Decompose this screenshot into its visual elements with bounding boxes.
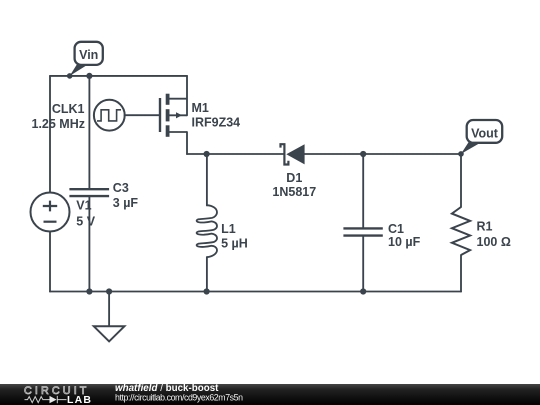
svg-text:R1: R1 bbox=[477, 220, 493, 234]
svg-text:Vout: Vout bbox=[471, 126, 499, 140]
wire switch node to diode D1 bbox=[187, 153, 284, 155]
M1 body terminal line with arrow bbox=[170, 114, 188, 116]
node bottom rail / C1 bbox=[360, 288, 366, 294]
M1 channel bar middle bbox=[166, 109, 170, 121]
capacitor C3 plates bbox=[69, 189, 109, 196]
wire C1 lower lead bbox=[362, 236, 364, 292]
inductor L1 coil bbox=[197, 205, 217, 257]
wire L1 lower lead bbox=[206, 257, 208, 292]
wire C3 branch lower bbox=[88, 197, 90, 292]
net flag Vin bbox=[67, 42, 103, 79]
diode D1 (schottky 1N5817) bbox=[281, 144, 305, 164]
M1 channel bar top bbox=[166, 94, 170, 105]
wire L1 upper lead bbox=[206, 154, 208, 205]
svg-text:1.25 MHz: 1.25 MHz bbox=[32, 117, 86, 131]
svg-text:CLK1: CLK1 bbox=[52, 102, 85, 116]
wire CLK1 output to M1 gate bbox=[125, 114, 160, 116]
node bottom rail / ground bbox=[106, 288, 112, 294]
CircuitLab logo resistor+diode glyph bbox=[25, 396, 67, 403]
wire diode D1 to Vout corner bbox=[305, 153, 462, 155]
svg-text:M1: M1 bbox=[192, 101, 209, 115]
wire C1 upper lead bbox=[362, 154, 364, 228]
svg-text:1N5817: 1N5817 bbox=[272, 185, 316, 199]
wire M1 source/body to top rail bbox=[186, 76, 188, 115]
D1 triangle (pointing left) bbox=[286, 144, 304, 164]
wire top rail Vin net bbox=[50, 75, 187, 77]
M1 channel bar bottom bbox=[166, 125, 170, 137]
node top rail / C3 branch bbox=[86, 73, 92, 79]
M1 bottom terminal line bbox=[170, 131, 188, 133]
svg-text:10 µF: 10 µF bbox=[388, 235, 421, 249]
svg-text:L1: L1 bbox=[221, 222, 236, 236]
svg-text:V1: V1 bbox=[76, 199, 91, 213]
svg-text:100 Ω: 100 Ω bbox=[477, 235, 511, 249]
wire left branch to V1 top bbox=[49, 76, 51, 193]
M1 gate line bbox=[159, 98, 161, 132]
svg-text:5 µH: 5 µH bbox=[221, 236, 248, 250]
net flag Vout bbox=[458, 120, 502, 157]
resistor R1 zigzag bbox=[452, 207, 470, 255]
svg-text:5 V: 5 V bbox=[76, 214, 95, 228]
D1 cathode bar with schottky hooks bbox=[281, 144, 289, 164]
wire M1 drain down to switch node bbox=[186, 132, 188, 154]
capacitor C1 plates bbox=[343, 228, 382, 235]
ground symbol bbox=[94, 292, 125, 342]
svg-text:http://circuitlab.com/cd9yex62: http://circuitlab.com/cd9yex62m7s5n bbox=[115, 393, 243, 403]
junction node dots bbox=[86, 73, 366, 295]
svg-text:Vin: Vin bbox=[79, 48, 98, 62]
svg-text:3 µF: 3 µF bbox=[113, 196, 139, 210]
wire V1 bottom to ground rail bbox=[49, 232, 51, 292]
wire Vout corner down to R1 bbox=[460, 154, 462, 207]
wire C3 branch upper bbox=[88, 76, 90, 189]
svg-text:IRF9Z34: IRF9Z34 bbox=[192, 116, 241, 130]
clock source CLK1 symbol bbox=[94, 100, 125, 131]
transistor M1 (PMOS IRF9Z34) bbox=[160, 94, 187, 137]
svg-text:LAB: LAB bbox=[67, 394, 92, 405]
svg-text:C1: C1 bbox=[388, 222, 404, 236]
node bottom rail / C3 bbox=[86, 288, 92, 294]
svg-text:D1: D1 bbox=[286, 171, 302, 185]
wire bottom ground rail bbox=[50, 291, 461, 293]
voltage source V1 symbol bbox=[31, 193, 70, 232]
node bottom rail / L1 bbox=[204, 288, 210, 294]
svg-text:C3: C3 bbox=[113, 181, 129, 195]
wire R1 lower lead bbox=[460, 255, 462, 292]
node Vout rail / C1 bbox=[360, 151, 366, 157]
M1 top terminal line bbox=[170, 98, 188, 100]
node switch node / L1 bbox=[204, 151, 210, 157]
